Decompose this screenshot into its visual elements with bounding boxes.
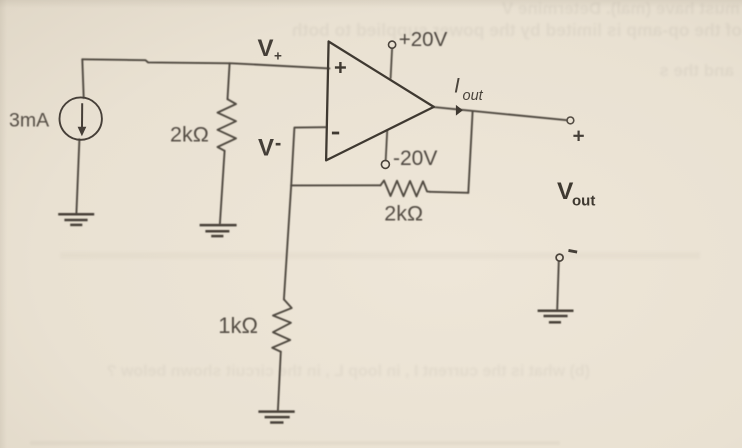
current source I1 arrow — [78, 103, 87, 136]
bleed-through text line 2 (mirrored) — [292, 20, 742, 40]
bleed-through text line 3 (mirrored, bottom) — [107, 363, 590, 380]
svg-text:and the s: and the s — [659, 61, 734, 80]
output current arrowhead — [456, 105, 463, 116]
wire V- node down to R3 — [284, 185, 291, 299]
svg-text:2kΩ: 2kΩ — [384, 202, 423, 226]
resistor R1 2k zigzag — [218, 99, 237, 151]
bleed-through smudge bottom edge — [30, 441, 560, 445]
resistor R2 2k feedback zigzag — [381, 181, 431, 197]
wire top rail V+ node — [82, 59, 329, 68]
wire feedback to V- node — [291, 184, 380, 186]
ground under R3 — [258, 412, 294, 423]
output plus terminal circle — [567, 117, 574, 124]
svg-text:(b) what is the current I ,: (b) what is the current I , in loop L , … — [107, 363, 590, 380]
svg-text:of the op-amp is limited by th: of the op-amp is limited by the power su… — [292, 20, 742, 40]
wire feedback bottom horizontal — [430, 192, 468, 193]
svg-text:+20V: +20V — [399, 28, 448, 51]
current source I1 circle — [59, 97, 101, 139]
svg-text:out: out — [572, 193, 595, 210]
bleed-through smudge mid page — [60, 252, 700, 259]
ground under R1 — [200, 225, 237, 236]
svg-text:2kΩ: 2kΩ — [170, 123, 209, 147]
wire R1 bottom lead — [220, 151, 225, 224]
output minus terminal dash mark — [568, 249, 577, 253]
wire current source bottom lead — [76, 139, 79, 213]
svg-text:out: out — [463, 88, 484, 104]
op-amp U1 minus input symbol — [332, 132, 339, 135]
output minus terminal circle — [556, 254, 563, 261]
wire +20V supply lead — [391, 48, 393, 78]
svg-text:1kΩ: 1kΩ — [218, 313, 258, 338]
ground at output terminal — [538, 311, 574, 323]
output plus terminal label + — [573, 131, 583, 141]
+20V supply terminal circle — [389, 41, 396, 48]
wire feedback right vertical — [468, 112, 472, 193]
svg-text:3mA: 3mA — [9, 110, 49, 132]
op-amp U1 triangle — [326, 42, 434, 161]
svg-text:+: + — [274, 49, 282, 64]
wire V- input — [291, 127, 325, 185]
wire R3 bottom lead — [278, 352, 281, 411]
wire R1 top lead — [228, 63, 230, 99]
bleed-through text line 3 top right (mirrored) — [659, 61, 734, 80]
svg-text:V: V — [258, 135, 274, 162]
resistor R3 1k zigzag — [272, 299, 292, 351]
op-amp U1 plus input symbol — [335, 62, 346, 73]
svg-text:V: V — [258, 35, 274, 62]
wire op-amp output — [434, 107, 567, 120]
svg-text:I: I — [454, 75, 460, 98]
wire current source top lead — [82, 59, 83, 98]
wire -20V supply lead — [386, 131, 388, 160]
ground under current source — [58, 214, 94, 225]
svg-text:-20V: -20V — [393, 147, 437, 170]
bleed-through text line 1 (mirrored) — [501, 0, 740, 18]
wire output minus terminal to ground — [557, 261, 559, 309]
-20V supply terminal circle — [381, 160, 389, 168]
svg-text:must have (mal). Determine V: must have (mal). Determine V — [501, 0, 740, 18]
